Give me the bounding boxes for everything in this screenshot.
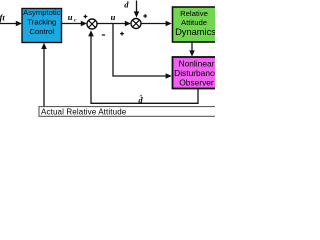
svg-text:ft: ft xyxy=(0,13,5,23)
svg-text:Disturbance: Disturbance xyxy=(174,68,215,78)
svg-text:d̂: d̂ xyxy=(138,94,143,105)
svg-text:Dynamics: Dynamics xyxy=(175,27,215,37)
svg-text:c: c xyxy=(74,17,77,23)
svg-text:Attitude: Attitude xyxy=(181,18,207,27)
svg-text:u: u xyxy=(68,12,73,22)
svg-text:Relative: Relative xyxy=(180,9,208,18)
svg-text:u: u xyxy=(111,12,116,22)
svg-text:d: d xyxy=(124,0,129,9)
svg-text:Tracking: Tracking xyxy=(27,18,56,27)
svg-text:Control: Control xyxy=(29,27,54,36)
svg-text:Asymptotic: Asymptotic xyxy=(23,8,61,17)
svg-text:Observer: Observer xyxy=(179,77,214,87)
svg-text:Actual Relative Attitude: Actual Relative Attitude xyxy=(41,108,127,117)
